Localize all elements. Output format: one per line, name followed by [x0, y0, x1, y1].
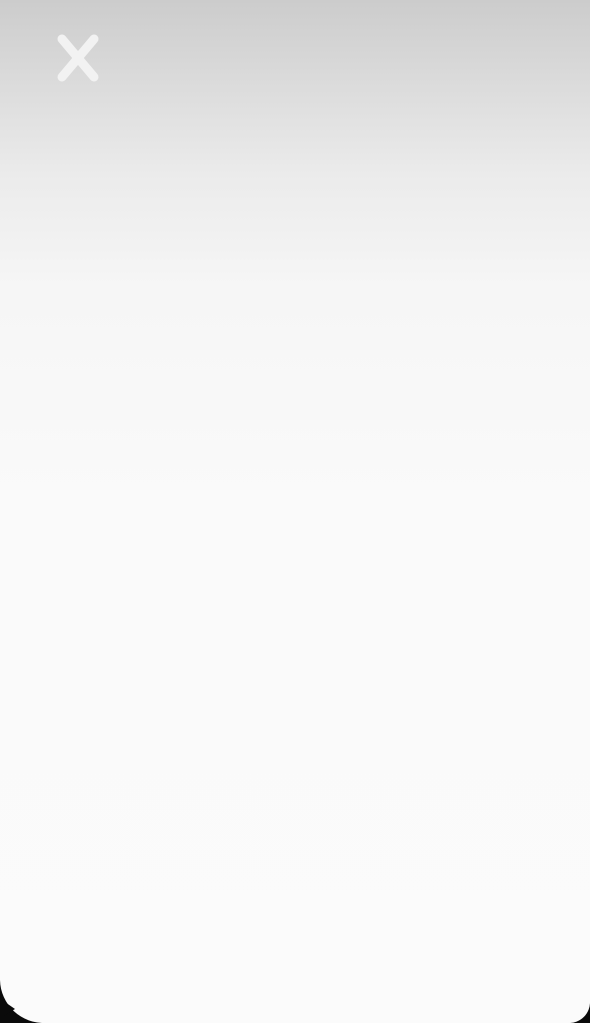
corner bottom-right — [568, 1001, 590, 1023]
corner bottom-left — [0, 978, 46, 1023]
UPPER PLAN — [0, 0, 1, 1]
LOWER PLAN — [0, 0, 1, 1]
close X icon — [62, 39, 94, 77]
